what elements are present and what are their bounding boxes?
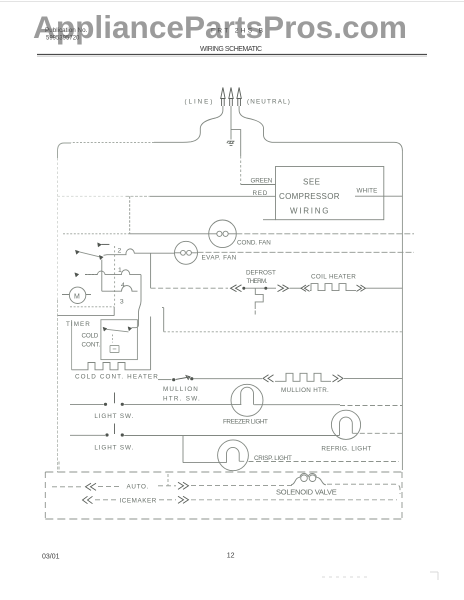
lamp CRISP LIGHT xyxy=(218,440,249,471)
wire GREEN into compressor box xyxy=(241,184,276,186)
timer switch contact A xyxy=(98,243,110,247)
top scan edge line xyxy=(0,1,464,3)
wire icemaker row 1 left xyxy=(52,486,82,488)
wire LINE cord to left rail xyxy=(154,106,223,142)
right rail vertical xyxy=(401,151,403,470)
node light switch B contacts xyxy=(105,433,108,436)
connector arrows coil heater left xyxy=(301,285,310,291)
wire crisp light to right rail xyxy=(239,460,399,462)
svg-text:COMPRESSOR: COMPRESSOR xyxy=(279,192,340,201)
wire freezer light to right rail xyxy=(254,404,340,406)
wire icemaker row1 after label xyxy=(158,485,176,487)
svg-text:CONT.: CONT. xyxy=(82,342,101,349)
wire hanging node to row 332 xyxy=(162,308,164,332)
wire defrost therm segment xyxy=(245,287,276,289)
icemaker dashed box left xyxy=(44,472,46,519)
svg-text:REFRIG. LIGHT: REFRIG. LIGHT xyxy=(321,446,371,453)
cold control blade xyxy=(107,329,129,332)
mullion switch blade xyxy=(176,376,190,380)
wire icemaker row1 mid xyxy=(98,486,122,488)
wire terminal 3 to left rail xyxy=(58,307,115,316)
connector arrows defrost left xyxy=(231,285,242,292)
title underline xyxy=(37,54,427,56)
svg-text:(LINE): (LINE) xyxy=(185,99,213,106)
wire mullion row xyxy=(194,378,263,380)
compressor box xyxy=(276,167,384,220)
svg-text:WIRING: WIRING xyxy=(290,207,329,216)
cold control box xyxy=(101,320,137,360)
switch MULLION HTR SW wire left xyxy=(158,379,172,381)
svg-text:SOLENOID VALVE: SOLENOID VALVE xyxy=(276,488,337,497)
icemaker dashed box bottom xyxy=(45,518,402,520)
defrost thermostat bracket xyxy=(255,288,263,314)
svg-text:WHITE: WHITE xyxy=(357,188,378,195)
wire cond fan to right rail xyxy=(236,233,414,235)
svg-text:MULLION HTR.: MULLION HTR. xyxy=(281,387,329,394)
wire evap row down to defrost row xyxy=(150,253,152,288)
wire evap fan to right rail xyxy=(198,251,415,253)
wire LINE dotted section xyxy=(71,142,154,144)
node defrost right terminal xyxy=(264,287,267,290)
svg-text:LIGHT SW.: LIGHT SW. xyxy=(94,444,133,451)
svg-text:COND. FAN: COND. FAN xyxy=(237,240,271,247)
svg-text:EVAP. FAN: EVAP. FAN xyxy=(202,255,237,262)
solenoid coil xyxy=(291,477,300,485)
wire left rail into icemaker box xyxy=(58,462,60,473)
compressor box bottom tab xyxy=(263,219,276,221)
svg-text:TIMER: TIMER xyxy=(66,321,90,328)
svg-text:GREEN: GREEN xyxy=(251,178,273,185)
wire timer terminal 3 dotted xyxy=(70,306,114,308)
svg-text:M: M xyxy=(74,293,80,300)
wire timer motor stubs xyxy=(62,294,91,296)
svg-text:DEFROST: DEFROST xyxy=(246,269,276,276)
label SEE COMPRESSOR WIRING xyxy=(279,178,340,216)
wire icemaker internal vertical xyxy=(167,474,169,485)
svg-text:3: 3 xyxy=(120,299,124,306)
light switch A plunger xyxy=(114,393,116,404)
wire icemaker row1 to solenoid xyxy=(191,484,292,486)
wire timer terminal 2 to evap fan xyxy=(104,249,175,255)
wire cond fan row to motor xyxy=(130,233,209,235)
timer switch contact C xyxy=(99,255,103,259)
svg-text:COLD CONT. HEATER: COLD CONT. HEATER xyxy=(75,373,158,380)
motor TIMER M xyxy=(69,287,85,303)
svg-text:HTR. SW.: HTR. SW. xyxy=(163,395,200,402)
svg-text:ICEMAKER: ICEMAKER xyxy=(120,498,157,505)
timer outer box right edge xyxy=(150,317,152,370)
connector arrows mullion left xyxy=(263,375,274,382)
plug prong NEUTRAL xyxy=(237,88,241,107)
ground symbol xyxy=(227,141,235,145)
timer mechanical link dashed xyxy=(114,246,116,307)
timer outer box left edge xyxy=(71,320,73,370)
wire solenoid to box corner xyxy=(327,484,400,494)
wire contact C down to terminal 4 xyxy=(101,260,103,292)
wire refrig light to right rail xyxy=(352,432,402,434)
svg-text:LIGHT SW.: LIGHT SW. xyxy=(94,413,133,420)
svg-text:03/01: 03/01 xyxy=(42,554,60,561)
wire timer terminal 4 xyxy=(102,286,138,292)
wire green branch from ground prong xyxy=(231,130,241,156)
wire icemaker row2 mid xyxy=(95,499,176,501)
wire light switch A row left xyxy=(70,404,104,406)
wire RED rail to compressor box xyxy=(150,195,276,197)
svg-text:RED: RED xyxy=(253,190,268,197)
wire cond fan row left dotted xyxy=(63,233,130,235)
svg-text:MULLION: MULLION xyxy=(163,386,198,393)
connector arrows mullion right xyxy=(333,375,344,382)
connector arrows coil heater right xyxy=(357,285,366,291)
connector icemaker row2 left xyxy=(83,496,93,503)
svg-text:(NEUTRAL): (NEUTRAL) xyxy=(247,99,290,106)
wire to coil heater xyxy=(290,287,302,289)
plug prong ground xyxy=(229,88,233,107)
cold control contact left xyxy=(103,327,107,331)
svg-text:FRT 2HS B: FRT 2HS B xyxy=(211,28,263,35)
motor COND FAN xyxy=(209,220,237,248)
wire to freezer light xyxy=(124,404,241,406)
wire to refrig light xyxy=(124,435,339,437)
svg-text:WIRING SCHEMATIC: WIRING SCHEMATIC xyxy=(200,46,262,53)
svg-text:4: 4 xyxy=(121,282,125,289)
svg-text:THERM.: THERM. xyxy=(247,278,268,285)
svg-text:FREEZER LIGHT: FREEZER LIGHT xyxy=(223,419,268,426)
timer switch pivot contact B xyxy=(75,250,79,254)
cold control bellows xyxy=(110,346,119,353)
lamp FREEZER LIGHT xyxy=(231,384,263,416)
icemaker dashed box right xyxy=(401,472,403,519)
light switch B plunger xyxy=(114,424,116,435)
svg-text:AUTO.: AUTO. xyxy=(127,483,149,490)
svg-text:Publication No.: Publication No. xyxy=(45,27,88,34)
timer switch blade xyxy=(79,252,101,257)
svg-text:CRISP. LIGHT: CRISP. LIGHT xyxy=(254,455,292,462)
wire ground prong down xyxy=(230,106,232,140)
wire coil heater to right rail xyxy=(366,287,402,289)
wire mullion to right rail xyxy=(344,377,402,379)
wire junction red rail down to cond fan xyxy=(129,196,131,234)
resistor COIL HEATER xyxy=(310,284,356,291)
connector arrows defrost right xyxy=(278,285,289,292)
svg-text:2: 2 xyxy=(118,247,122,254)
icemaker dashed box top xyxy=(45,471,402,473)
left rail vertical xyxy=(57,158,59,300)
wire green vertical faint section xyxy=(240,156,242,185)
wire defrost row from junction xyxy=(151,287,228,289)
faint bottom-right scan marks xyxy=(322,572,438,580)
wire row 332 to right rail xyxy=(164,331,402,333)
wire light switch B row left xyxy=(70,434,105,436)
node mullion switch left xyxy=(172,378,175,381)
wire terminal 1 down to cold control xyxy=(132,275,142,328)
wire NEUTRAL cord to right rail xyxy=(239,106,394,142)
svg-text:1: 1 xyxy=(118,267,122,274)
node defrost left terminal xyxy=(242,287,245,290)
resistor MULLION HTR xyxy=(275,373,331,381)
node light switch A contacts xyxy=(104,403,107,406)
plug prong LINE xyxy=(221,88,225,107)
svg-text:COLD: COLD xyxy=(82,333,99,340)
right rail top corner xyxy=(394,142,402,151)
svg-text:12: 12 xyxy=(227,553,235,560)
svg-text:5995395720: 5995395720 xyxy=(46,35,80,41)
left rail top corner xyxy=(58,143,72,160)
wire timer terminal 1 xyxy=(85,270,141,275)
svg-text:COIL HEATER: COIL HEATER xyxy=(311,273,356,280)
timer outer box bottom with cold control heater pulses xyxy=(72,363,151,370)
svg-text:SEE: SEE xyxy=(303,178,321,187)
wire drop to crisp light xyxy=(183,436,227,463)
timer switch contact D xyxy=(75,273,97,277)
connector arrows icemaker row2 right xyxy=(178,496,189,503)
connector arrows icemaker row1 left xyxy=(86,483,97,490)
lamp REFRIG LIGHT xyxy=(331,410,360,439)
cold control mechanical dashes xyxy=(112,335,114,343)
node mullion switch right xyxy=(190,377,193,380)
wire WHITE to right rail xyxy=(355,195,402,197)
motor EVAP FAN xyxy=(175,241,198,264)
wire icemaker row2 tail xyxy=(191,499,397,501)
connector arrows icemaker row1 right xyxy=(178,482,189,489)
cold control contact right xyxy=(128,327,132,331)
wire RED rail faint left section xyxy=(58,195,127,197)
